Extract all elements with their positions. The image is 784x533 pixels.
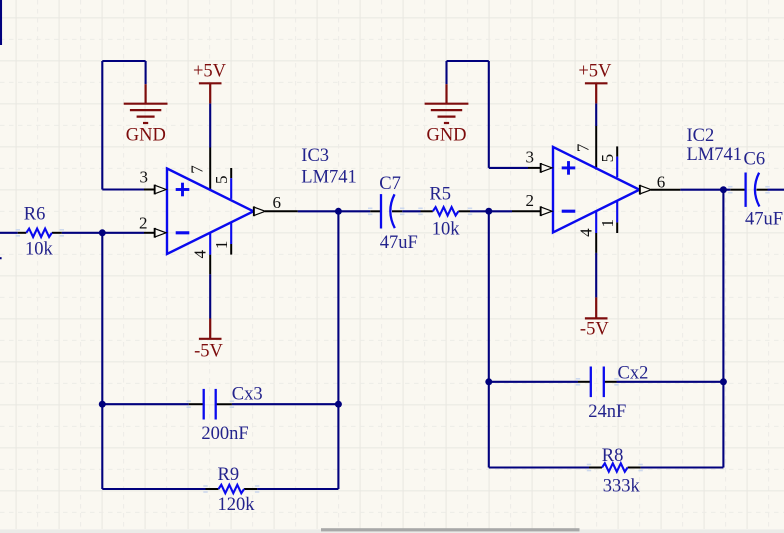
svg-text:200nF: 200nF	[201, 424, 248, 444]
svg-text:2: 2	[139, 213, 148, 232]
svg-text:5: 5	[212, 175, 231, 184]
svg-text:+5V: +5V	[578, 62, 612, 82]
svg-text:LM741: LM741	[687, 145, 743, 165]
svg-text:7: 7	[188, 165, 207, 174]
svg-text:IC2: IC2	[687, 126, 715, 146]
svg-text:5: 5	[598, 154, 617, 163]
svg-text:C6: C6	[744, 150, 766, 170]
svg-text:GND: GND	[426, 126, 466, 146]
svg-text:Cx2: Cx2	[618, 364, 649, 384]
svg-text:LM741: LM741	[301, 168, 357, 188]
svg-text:-5V: -5V	[194, 341, 223, 361]
svg-text:10k: 10k	[25, 239, 54, 259]
svg-text:47uF: 47uF	[380, 233, 418, 253]
svg-text:4: 4	[576, 228, 595, 237]
svg-text:R9: R9	[218, 465, 240, 485]
svg-text:+5V: +5V	[193, 62, 227, 82]
svg-text:333k: 333k	[603, 477, 641, 497]
svg-text:GND: GND	[126, 126, 166, 146]
svg-text:1: 1	[598, 219, 617, 228]
svg-text:R8: R8	[602, 446, 624, 466]
svg-text:3: 3	[526, 147, 535, 166]
svg-text:120k: 120k	[218, 495, 256, 515]
svg-text:Cx3: Cx3	[232, 384, 263, 404]
svg-text:10k: 10k	[432, 220, 461, 240]
svg-text:C7: C7	[379, 174, 401, 194]
svg-text:-5V: -5V	[580, 320, 609, 340]
svg-text:IC3: IC3	[301, 146, 329, 166]
svg-text:3: 3	[140, 167, 149, 186]
svg-text:6: 6	[273, 193, 282, 212]
svg-text:4: 4	[190, 249, 209, 258]
svg-text:R5: R5	[429, 185, 451, 205]
svg-text:6: 6	[657, 172, 666, 191]
svg-text:2: 2	[526, 191, 535, 210]
svg-text:24nF: 24nF	[588, 402, 626, 422]
svg-text:R6: R6	[24, 204, 46, 224]
svg-text:7: 7	[574, 143, 593, 152]
svg-text:1: 1	[212, 241, 231, 250]
svg-text:47uF: 47uF	[745, 210, 783, 230]
